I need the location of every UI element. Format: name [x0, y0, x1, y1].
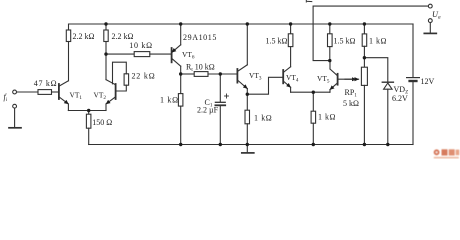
stray tick mark top	[306, 0, 312, 2]
ground (below VT3 emitter resistor)	[242, 145, 254, 153]
junction bottom rail / RP1	[363, 143, 366, 146]
svg-text:2.2 kΩ: 2.2 kΩ	[73, 32, 95, 41]
svg-text:5 kΩ: 5 kΩ	[343, 99, 359, 108]
wire 10k to VT6 base	[150, 53, 172, 55]
svg-text:12V: 12V	[421, 77, 435, 86]
junction top rail / 1.5k R8	[289, 22, 292, 25]
resistor 1 kΩ (reference feed)	[362, 24, 367, 58]
junction top rail / 1.5k R9	[328, 22, 331, 25]
wire 47k to VT1 base	[52, 91, 59, 93]
wire Rt to VT3 base	[208, 73, 237, 75]
resistor 22 kΩ (VT2 feedback)	[113, 62, 129, 91]
junction bottom rail / C1	[219, 143, 222, 146]
junction node B 1k R10 / RP1 / zener feed	[363, 56, 366, 59]
junction top rail / VT6 emitter	[179, 22, 182, 25]
resistor 2.2 kΩ (R2, VT2 collector load)	[104, 24, 108, 80]
resistor Rt 10 kΩ	[194, 72, 208, 77]
junction Rt output / C1 top	[219, 72, 222, 75]
wire top supply rail	[69, 24, 414, 30]
transistor VT5 (mirrored)	[330, 61, 356, 93]
wire output tap to Ua	[313, 6, 428, 61]
wire node A (res2 bottom) to 10k	[106, 53, 134, 55]
battery 12V	[407, 78, 420, 81]
transistor VT2 (mirrored)	[106, 80, 116, 111]
watermark logo bottom right	[434, 149, 460, 158]
wire input to 47k	[17, 91, 39, 93]
potentiometer RP1 5 kΩ	[345, 58, 367, 145]
transistor VT1	[59, 81, 69, 111]
svg-text:1 kΩ: 1 kΩ	[254, 113, 272, 122]
resistor 47 kΩ (input)	[38, 90, 52, 95]
wire right edge (battery branch bottom)	[412, 82, 414, 145]
resistor 1.5 kΩ (VT5 collector)	[328, 24, 333, 61]
junction bottom rail / 1k R6 ground	[246, 143, 249, 146]
svg-text:2.2 kΩ: 2.2 kΩ	[112, 32, 134, 41]
svg-text:22 kΩ: 22 kΩ	[132, 72, 156, 81]
junction bottom rail / 1k R7	[312, 143, 315, 146]
wire VT4/VT5 emitter bus	[291, 91, 330, 93]
wire VT6 collector to Rt	[181, 73, 195, 75]
svg-text:2.2 µF: 2.2 µF	[197, 106, 219, 115]
svg-text:1 kΩ: 1 kΩ	[160, 96, 179, 105]
wire node B to zener	[364, 58, 387, 82]
svg-text:10 kΩ: 10 kΩ	[129, 41, 152, 50]
input terminal fi	[13, 90, 17, 94]
zener diode VDz 6.2V	[382, 82, 393, 144]
resistor 1 kΩ (VT6 collector load)	[178, 74, 183, 145]
junction top rail / 1k R10	[363, 22, 366, 25]
svg-text:150 Ω: 150 Ω	[92, 118, 112, 127]
svg-text:1.5 kΩ: 1.5 kΩ	[266, 37, 288, 46]
junction VT3 emitter node	[246, 93, 249, 96]
svg-text:47 kΩ: 47 kΩ	[34, 79, 57, 88]
transistor VT6 (29A1015 PNP)	[172, 24, 181, 74]
svg-text:6.2V: 6.2V	[392, 94, 408, 103]
svg-text:29A1015: 29A1015	[183, 33, 217, 42]
resistor 1 kΩ (emitter bus)	[311, 92, 316, 144]
resistor 2.2 kΩ (R1, VT1 collector load)	[66, 30, 70, 81]
svg-text:1.5 kΩ: 1.5 kΩ	[334, 37, 356, 46]
junction bottom rail / 1k R5	[179, 143, 182, 146]
transistor VT4	[283, 47, 290, 93]
output terminal Ua	[428, 4, 432, 8]
resistor 150 Ω (emitter)	[86, 111, 91, 145]
output ground terminal	[424, 19, 436, 34]
wire bottom ground rail	[89, 144, 413, 146]
junction output node / VT5 collector	[328, 59, 331, 62]
junction top rail / VT3 collector	[246, 22, 249, 25]
resistor 1 kΩ (VT3 emitter)	[245, 94, 250, 144]
svg-text:1 kΩ: 1 kΩ	[318, 113, 336, 122]
input ground terminal	[9, 104, 21, 128]
junction node R2/10k feed	[104, 52, 107, 55]
junction top rail / R2	[104, 22, 107, 25]
junction VT6 collector node	[179, 72, 182, 75]
junction bottom rail / zener	[386, 143, 389, 146]
junction VT4-VT5 emitter bus / 1k R7	[312, 91, 315, 94]
capacitor C1 2.2 µF	[215, 74, 228, 145]
resistor 10 kΩ (VT6 base)	[134, 52, 150, 57]
wire VT3 emitter to VT4 base	[247, 77, 283, 94]
junction VT1-VT2 emitter bus / 150R	[87, 109, 90, 112]
wire VT1/VT2 emitter bus	[68, 110, 106, 112]
transistor VT3	[237, 24, 247, 94]
wire right edge (battery branch top)	[412, 24, 414, 77]
resistor 1.5 kΩ (VT4 collector)	[288, 24, 293, 47]
svg-text:1 kΩ: 1 kΩ	[369, 37, 387, 46]
